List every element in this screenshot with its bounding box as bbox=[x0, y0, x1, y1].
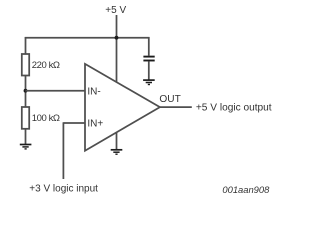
svg-text:001aan908: 001aan908 bbox=[222, 184, 270, 195]
ground G1 below R2 bbox=[20, 145, 32, 149]
svg-text:220 kΩ: 220 kΩ bbox=[32, 60, 60, 71]
wire capacitor to ground bbox=[148, 61, 150, 79]
svg-text:+5 V logic output: +5 V logic output bbox=[196, 102, 272, 113]
ground G3 below op-amp bbox=[111, 150, 123, 154]
wire R2 to ground bbox=[25, 129, 27, 144]
svg-text:100 kΩ: 100 kΩ bbox=[32, 113, 60, 124]
wire rail to capacitor bbox=[148, 37, 150, 56]
wire op-amp ground pin bbox=[116, 133, 118, 150]
svg-text:OUT: OUT bbox=[159, 94, 180, 105]
resistor R1 220 kOhm body bbox=[22, 54, 29, 76]
svg-text:+3 V logic input: +3 V logic input bbox=[29, 183, 98, 194]
resistor R2 100 kOhm body bbox=[22, 107, 29, 129]
ground G2 below capacitor bbox=[143, 80, 155, 84]
wire divider junction to IN- bbox=[26, 90, 86, 92]
wire rail down to R1 bbox=[25, 37, 27, 55]
svg-text:IN+: IN+ bbox=[87, 119, 103, 130]
capacitor C1 decoupling plates bbox=[143, 57, 154, 61]
node junction rail/+5V bbox=[115, 36, 119, 40]
wire IN+ input vertical bbox=[62, 122, 64, 179]
node junction divider bbox=[24, 89, 28, 93]
op-amp U1 comparator triangle bbox=[85, 64, 160, 151]
wire IN+ input horizontal bbox=[63, 122, 85, 124]
svg-text:+5 V: +5 V bbox=[105, 5, 126, 16]
wire +5V rail horizontal bbox=[25, 37, 150, 39]
svg-text:IN-: IN- bbox=[87, 87, 100, 98]
wire +5V vertical to op-amp top pin bbox=[116, 15, 118, 82]
wire R1 to junction to R2 bbox=[25, 76, 27, 108]
wire output bbox=[160, 106, 192, 108]
